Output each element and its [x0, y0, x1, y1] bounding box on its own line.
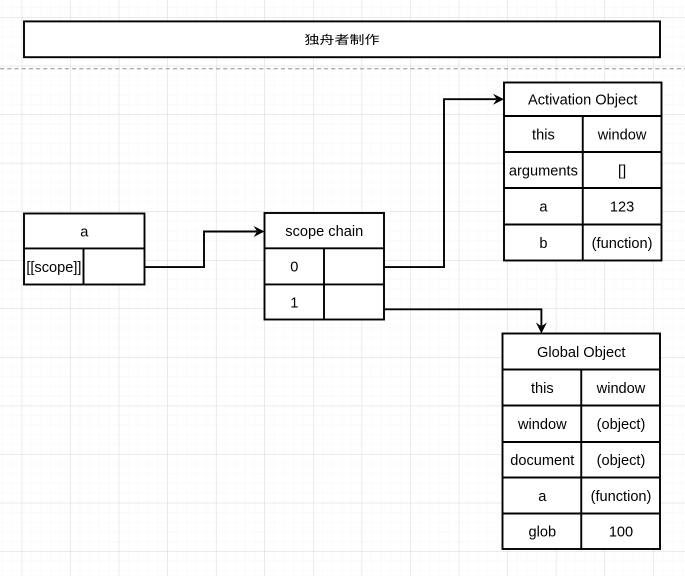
Activation Object row b/(function): [539, 236, 652, 252]
svg-text:(function): (function): [592, 236, 653, 252]
svg-text:this: this: [532, 127, 555, 143]
scope chain row 1 label: [290, 295, 298, 311]
table "a" outer box: [24, 214, 145, 285]
wire scope chain row 1 to Global Object: [384, 309, 547, 333]
svg-text:[]: []: [618, 163, 626, 179]
svg-text:a: a: [539, 200, 548, 216]
Global Object row document/(object): [510, 453, 645, 469]
scope chain row 0 label: [290, 260, 298, 276]
Global Object row a/(function): [538, 489, 651, 505]
svg-text:a: a: [538, 489, 547, 505]
wire scope chain row 0 to Activation Object: [384, 94, 504, 267]
Global Object row glob/100: [529, 525, 634, 541]
Activation Object title text: [528, 93, 638, 109]
svg-text:this: this: [531, 381, 554, 397]
svg-text:scope chain: scope chain: [285, 224, 363, 240]
Global Object row this/window: [531, 381, 646, 397]
svg-text:(object): (object): [597, 417, 646, 433]
Global Object row window/(object): [517, 417, 645, 433]
wire [[scope]] to scope chain: [145, 226, 265, 267]
svg-text:window: window: [597, 127, 647, 143]
Activation Object row this/window: [532, 127, 647, 143]
svg-text:123: 123: [610, 200, 634, 216]
svg-text:100: 100: [609, 525, 633, 541]
Global Object title text: [537, 345, 625, 361]
svg-text:Global Object: Global Object: [537, 345, 625, 361]
title banner box: [24, 21, 660, 57]
svg-text:arguments: arguments: [509, 163, 578, 179]
svg-text:0: 0: [290, 260, 298, 276]
Activation Object row a/123: [539, 200, 634, 216]
title text 独舟者制作: [305, 34, 379, 45]
table "Activation Object" outer box: [504, 83, 662, 261]
table "a" cell [[scope]]: [26, 260, 81, 276]
table "Global Object" outer box: [503, 334, 661, 550]
svg-text:b: b: [539, 236, 547, 252]
svg-text:window: window: [517, 417, 567, 433]
svg-text:glob: glob: [529, 525, 557, 541]
svg-text:1: 1: [290, 295, 298, 311]
table "scope chain" title text: [285, 224, 363, 240]
svg-text:Activation Object: Activation Object: [528, 93, 638, 109]
svg-text:[[scope]]: [[scope]]: [26, 260, 81, 276]
table "scope chain" outer box: [265, 213, 385, 320]
svg-text:(object): (object): [597, 453, 646, 469]
svg-text:window: window: [596, 381, 646, 397]
svg-text:document: document: [510, 453, 574, 469]
page boundary dashed line: [0, 68, 685, 70]
svg-text:(function): (function): [591, 489, 652, 505]
svg-text:a: a: [80, 224, 89, 240]
Activation Object row arguments/[]: [509, 163, 626, 179]
table "a" title text: [80, 224, 89, 240]
